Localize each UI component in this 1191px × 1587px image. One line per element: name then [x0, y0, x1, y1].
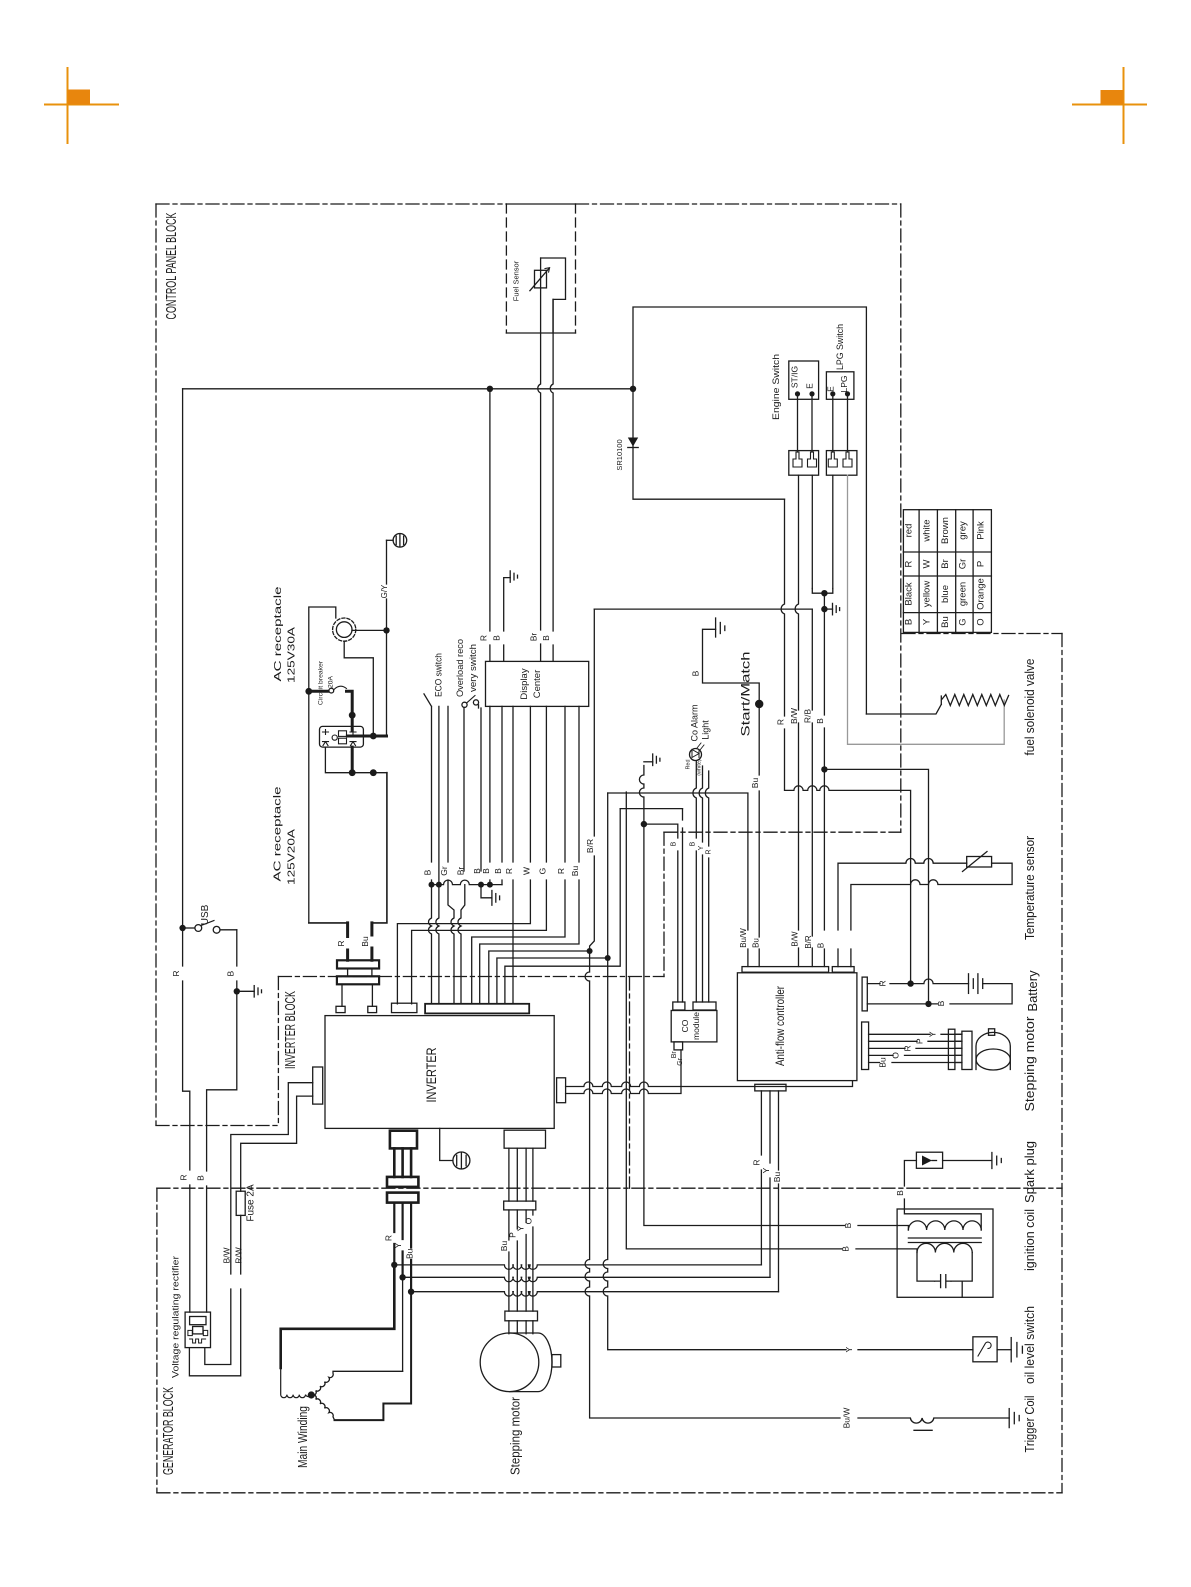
ignition coil capacitor [935, 1275, 951, 1288]
wire R display [512, 706, 514, 1003]
svg-text:USB: USB [200, 904, 211, 925]
ignition coil box [897, 1209, 993, 1297]
wire G display [412, 706, 547, 1003]
svg-text:Br: Br [671, 1051, 678, 1059]
node 20A thick junction [370, 733, 377, 740]
fuel solenoid valve coil [941, 695, 1008, 706]
svg-text:Circuit breaker: Circuit breaker [318, 660, 325, 705]
wire R/B lower [811, 609, 813, 966]
wire Bu leg thick [370, 923, 373, 960]
CO module top pad right [693, 1002, 716, 1010]
svg-text:Trigger Coil: Trigger Coil [1022, 1395, 1037, 1452]
inverter pad 1 [336, 1006, 345, 1012]
svg-text:B: B [225, 970, 235, 976]
ground circle at inverter [453, 1152, 470, 1169]
fuel sensor arrow [530, 268, 549, 291]
svg-text:Bu/W: Bu/W [842, 1408, 852, 1429]
svg-text:Y: Y [761, 1167, 771, 1173]
wire H2 corridor [620, 808, 682, 810]
svg-text:Pink: Pink [975, 521, 986, 540]
inverter right tab [557, 1078, 566, 1103]
ground at spark plug [992, 1153, 1001, 1169]
wire Gr [448, 706, 454, 1003]
wire 30A bottom to breaker box [344, 641, 373, 736]
wire Br [458, 885, 465, 1004]
svg-text:B: B [904, 619, 915, 625]
ECO switch [424, 694, 439, 885]
CO module bottom pad [674, 1042, 683, 1050]
wire B/R corner [590, 609, 595, 951]
svg-text:W: W [521, 867, 531, 875]
registration mark top-right [1073, 68, 1146, 143]
node row B5 [487, 882, 493, 888]
wire spark plug to ground [943, 1160, 992, 1162]
node B ground tap [821, 606, 827, 612]
ground at trigger coil [1009, 1409, 1019, 1428]
B/W R/W labels [221, 1247, 243, 1264]
engine switch compartment box [633, 307, 866, 714]
svg-text:Y: Y [393, 1242, 403, 1248]
node G/Y receptacle [383, 627, 389, 633]
wire color code table [903, 510, 991, 633]
svg-text:Main Winding: Main Winding [295, 1406, 310, 1468]
svg-text:Gr: Gr [677, 1057, 684, 1065]
svg-text:LPG Switch: LPG Switch [835, 324, 846, 370]
stepping motor wires right [869, 1034, 962, 1062]
CO module label [680, 1012, 701, 1040]
wire H2 left leg to bar pin9 [505, 809, 620, 1004]
wire engine switch pin1 to connector [797, 396, 799, 452]
svg-text:Bu: Bu [751, 938, 760, 948]
svg-text:Y: Y [928, 1031, 938, 1037]
AC receptacle 125V30A outer [333, 618, 356, 641]
INVERTER box [325, 1016, 554, 1129]
svg-text:B: B [481, 868, 491, 874]
overload recovery switch [462, 696, 481, 872]
svg-text:R: R [776, 719, 786, 725]
engine switch contacts [795, 391, 800, 396]
node box top right [370, 769, 377, 776]
node row B1 [429, 882, 435, 888]
svg-text:Bu: Bu [570, 866, 580, 877]
wire 30A right terminal to G/Y node [352, 629, 387, 631]
wire bar to inverter pad 2 [371, 984, 373, 1006]
svg-text:O: O [891, 1052, 901, 1059]
svg-text:R: R [171, 971, 181, 977]
receptacle output box [309, 773, 387, 923]
AC receptacle 30A enclosure [309, 607, 336, 923]
svg-text:LPG: LPG [839, 375, 849, 392]
R Y Bu labels inverter bottom [384, 1235, 415, 1259]
svg-text:Bu: Bu [750, 778, 760, 789]
svg-text:Br: Br [940, 559, 951, 569]
svg-text:E: E [826, 386, 836, 392]
svg-text:Bu: Bu [878, 1057, 888, 1068]
wire ignition B2 corridor [626, 792, 897, 1249]
fuse 2A body [236, 1191, 245, 1215]
svg-text:Battery: Battery [1025, 970, 1040, 1012]
svg-text:P: P [975, 561, 986, 567]
stepping motor right body [976, 1029, 1010, 1070]
overload switch label [455, 639, 479, 697]
svg-text:Y: Y [516, 1225, 526, 1231]
CO wire labels [670, 841, 712, 1065]
stepping motor wire labels [878, 1031, 938, 1068]
svg-text:W: W [922, 559, 933, 568]
svg-text:B: B [195, 1175, 205, 1181]
svg-text:B/R: B/R [585, 839, 595, 853]
fuel sensor outline [541, 258, 566, 333]
GFCI pins [323, 730, 357, 746]
svg-text:Y: Y [698, 845, 705, 850]
inverter block dashed boundary step vertical [663, 832, 665, 976]
svg-text:B: B [815, 718, 825, 724]
anti-flow controller box [737, 973, 857, 1081]
svg-text:Gr: Gr [958, 559, 969, 570]
generator block dashed bottom [157, 1492, 1062, 1494]
svg-text:R: R [336, 940, 346, 946]
node breaker feed [305, 688, 312, 695]
wire B2 display [489, 706, 491, 884]
node Y branch [399, 1274, 405, 1280]
svg-text:very switch: very switch [468, 644, 479, 692]
wire thick GFCI to G/Y [347, 735, 386, 738]
svg-text:B: B [895, 1190, 905, 1196]
svg-text:B: B [843, 1222, 853, 1228]
svg-text:INVERTER BLOCK: INVERTER BLOCK [283, 991, 299, 1069]
ignition coil core [908, 1238, 981, 1243]
connector bar link stubs [348, 969, 372, 977]
fuel sensor resistor body [535, 270, 547, 288]
svg-text:B: B [816, 943, 825, 948]
battery wire labels [878, 980, 947, 1006]
wire engine box to fuel solenoid [866, 704, 941, 714]
connector pin terminals [793, 452, 817, 467]
ignition coil primary [908, 1221, 981, 1230]
svg-text:R: R [384, 1235, 394, 1241]
svg-text:G: G [537, 868, 547, 875]
svg-text:Center: Center [532, 670, 543, 699]
svg-text:R: R [904, 560, 915, 567]
leg labels [336, 936, 370, 947]
wire LPG pin1 to connector [832, 396, 834, 452]
junction row wire [432, 880, 503, 885]
svg-text:Start/Match: Start/Match [739, 652, 753, 737]
wire bar pin10 stub [512, 1003, 514, 1005]
svg-text:Bu: Bu [940, 616, 951, 628]
ignition B labels [841, 1222, 854, 1251]
svg-text:blue: blue [940, 585, 951, 603]
wire elbow to bar pin7 [489, 951, 590, 1004]
control panel block dashed frame left [155, 204, 157, 1126]
svg-text:Bu: Bu [499, 1241, 509, 1252]
svg-text:CO: CO [680, 1019, 690, 1032]
Co Alarm light LED [690, 743, 705, 761]
CO module box [671, 1011, 717, 1042]
svg-text:Engine Switch: Engine Switch [771, 354, 782, 420]
svg-text:grey: grey [958, 521, 969, 540]
stepping motor bottom comb [505, 1311, 538, 1321]
inverter block dashed boundary left [277, 977, 279, 1126]
svg-text:Bu: Bu [772, 1172, 782, 1183]
inverter bottom bar2 [387, 1193, 418, 1203]
svg-text:P: P [508, 1232, 518, 1238]
inverter long connector bar [425, 1004, 529, 1014]
svg-text:Anti-flow controller: Anti-flow controller [773, 986, 787, 1066]
control panel block dashed frame right [900, 204, 902, 832]
wire Y branch to anti-flow [403, 1277, 770, 1281]
anti-flow top small bar [832, 967, 854, 973]
svg-text:R: R [178, 1174, 188, 1180]
svg-text:B: B [492, 635, 502, 641]
wires anti-flow bottom [761, 1091, 778, 1292]
wire temp sensor upper [838, 859, 967, 967]
diode SR10100 [628, 438, 638, 448]
wire Y to winding upper arm [402, 1277, 404, 1371]
svg-text:B: B [841, 1246, 851, 1252]
ignition coil wiring [897, 1209, 981, 1297]
wire R/B connector down [811, 475, 813, 588]
control panel block dashed frame top [156, 203, 901, 205]
svg-text:O: O [524, 1217, 534, 1224]
wire battery R [867, 979, 968, 984]
main bus wire [183, 388, 633, 390]
svg-text:ST/IG: ST/IG [790, 366, 800, 388]
svg-text:B: B [691, 670, 701, 676]
svg-text:R: R [556, 868, 566, 874]
node H1 pin8 [605, 955, 611, 961]
node USB B ground [234, 988, 240, 994]
wire Bu/W label gap on B/W wire [776, 708, 826, 725]
inverter block dashed boundary step horizontal [664, 831, 901, 833]
anti-flow top connector bar [742, 967, 829, 973]
ground at USB B wire [237, 986, 262, 997]
svg-text:ECO switch: ECO switch [434, 653, 445, 697]
node box top left [349, 769, 356, 776]
svg-text:B/W: B/W [790, 931, 799, 947]
svg-text:green: green [958, 582, 969, 606]
svg-text:B/R: B/R [804, 935, 813, 949]
wire fuel sensor B to display [550, 299, 553, 661]
wire temp sensor right loop [851, 863, 1012, 966]
wire H2 right leg to CO pad [682, 809, 684, 1002]
svg-text:Brown: Brown [940, 517, 951, 544]
svg-text:Temperature sensor: Temperature sensor [1022, 835, 1037, 940]
AC receptacle labels [272, 586, 298, 885]
LPG switch box [826, 372, 854, 400]
ignition coil secondary [917, 1243, 972, 1252]
node USB tap [179, 925, 185, 931]
stepping motor bottom wire labels [499, 1217, 534, 1251]
svg-text:AC receptacle: AC receptacle [272, 786, 284, 881]
inverter-engine dashed separator vertical [629, 977, 631, 1188]
node R branch [391, 1262, 397, 1268]
wire E connector down [832, 475, 834, 588]
AC receptacle 125V30A inner [336, 622, 352, 638]
engine switch connector [789, 451, 819, 476]
svg-text:white: white [922, 519, 933, 542]
anti-flow battery tab [862, 977, 867, 1011]
wire G/Y vertical [386, 540, 388, 736]
wire ignition B1 corridor [639, 766, 897, 1226]
registration mark top-left [45, 68, 118, 143]
svg-text:Br: Br [529, 633, 539, 642]
svg-text:Spark plug: Spark plug [1022, 1141, 1037, 1203]
wire R branch to anti-flow [394, 1265, 761, 1269]
stepping motor bottom body [480, 1333, 561, 1392]
wire fuel sensor Br to display [538, 258, 541, 661]
wire bar to inverter pad 1 [341, 984, 343, 1006]
ground at display B [510, 571, 517, 582]
inverter small connector bar [392, 1003, 417, 1012]
svg-text:125V20A: 125V20A [286, 829, 298, 885]
battery symbol [969, 974, 983, 994]
wire inverter tab to R/W fuse [189, 1096, 312, 1376]
thick wires inverter bottom [394, 1148, 411, 1177]
generator block dashed left [156, 1188, 158, 1493]
svg-text:Fuel Sensor: Fuel Sensor [512, 260, 521, 301]
wire oil label to switch [858, 1349, 973, 1351]
wire display B top to ground [504, 578, 511, 662]
svg-text:B/W: B/W [221, 1247, 231, 1263]
svg-text:B/W: B/W [789, 708, 799, 724]
svg-text:yellow: yellow [922, 581, 933, 608]
svg-text:INVERTER: INVERTER [424, 1047, 439, 1102]
node row B4 [478, 882, 484, 888]
svg-text:Display: Display [519, 668, 530, 699]
block labels [161, 212, 299, 1475]
Start-Match lamp [755, 700, 763, 708]
wire R from box corner down [781, 499, 910, 983]
CO module wires top right [693, 761, 709, 1002]
wire tab upper right [566, 1081, 853, 1087]
svg-text:(white): (white) [697, 759, 703, 776]
engine switch box [789, 361, 819, 399]
wire breaker into GFCI [351, 715, 354, 730]
svg-text:oil level switch: oil level switch [1022, 1306, 1037, 1384]
wire R leg thick [346, 923, 349, 960]
trigger coil core [914, 1429, 932, 1431]
svg-text:G: G [958, 618, 969, 625]
wire B from USB down [207, 930, 237, 1312]
svg-text:Red: Red [686, 759, 692, 769]
engine block dashed right [1061, 634, 1063, 1493]
wire Bu display elbow [480, 706, 579, 1003]
wire display R top [489, 392, 491, 661]
svg-text:red: red [904, 524, 915, 538]
node B branch to battery line [821, 766, 827, 772]
oil level switch box [973, 1337, 997, 1362]
svg-text:module: module [691, 1012, 701, 1040]
wire bus left end down (R main) [182, 389, 184, 928]
main winding upper arm [311, 1371, 402, 1395]
svg-text:Y: Y [922, 618, 933, 625]
inverter left tab [313, 1067, 323, 1104]
wire battery to B [867, 984, 1012, 1004]
node bus-display R [487, 386, 493, 392]
wire engine switch pin2 to connector [811, 396, 813, 452]
Co Alarm light labels [686, 704, 711, 775]
svg-text:O: O [975, 618, 986, 625]
svg-text:Orange: Orange [975, 578, 986, 610]
trigger coil wire and coil [858, 1418, 1009, 1423]
svg-text:B: B [690, 841, 697, 846]
wire oil switch to ground [997, 1349, 1011, 1351]
GFCI receptacle 20A box [320, 726, 364, 747]
wire B1 [429, 885, 432, 1004]
wire labels R B left column [171, 970, 235, 1180]
wire tab lower to CO [566, 1050, 681, 1094]
inverter bottom thick connector [390, 1131, 417, 1149]
svg-text:B: B [670, 841, 677, 846]
svg-text:Bu: Bu [405, 1248, 415, 1259]
wire labels display bottom [422, 839, 595, 876]
svg-text:R: R [751, 1159, 761, 1165]
CO module top pad left [673, 1002, 685, 1010]
wire switch line to merge [594, 608, 812, 610]
svg-text:G/Y: G/Y [380, 584, 389, 598]
wire B/W connector to anti-flow [795, 475, 798, 966]
inverter AC connector bar upper [337, 960, 379, 968]
svg-text:E: E [805, 383, 815, 389]
svg-text:R: R [478, 635, 488, 641]
node winding center [308, 1391, 315, 1398]
circuit breaker labels [318, 660, 335, 705]
node bus-engine box [630, 386, 636, 392]
wire GFCI bottom left pin down [325, 747, 387, 773]
anti-flow bottom labels [751, 1159, 782, 1182]
svg-text:125V30A: 125V30A [286, 627, 298, 683]
anti-flow bottom connector [755, 1084, 786, 1091]
stepping motor comb stubs [509, 1321, 533, 1334]
svg-text:Voltage regulating rectifier: Voltage regulating rectifier [171, 1256, 182, 1378]
svg-text:CONTROL PANEL BLOCK: CONTROL PANEL BLOCK [164, 212, 180, 319]
svg-text:Stepping motor: Stepping motor [508, 1396, 523, 1475]
B wire to ground top [703, 629, 760, 700]
node B/R junction [587, 948, 593, 954]
inverter block dashed boundary top [278, 976, 664, 978]
svg-text:ignition coil: ignition coil [1022, 1209, 1037, 1271]
anti-flow stepping tab [862, 1022, 869, 1070]
wire W display [397, 706, 530, 1003]
svg-text:Light: Light [701, 720, 711, 740]
thick wires below bars [394, 1203, 411, 1292]
wire elbow to bar pin8 [497, 958, 608, 1004]
inverter block dashed boundary bottom-left [156, 1125, 278, 1127]
wire H1 oil corridor [608, 793, 748, 967]
wire LPG grey to fuel solenoid [848, 475, 1005, 744]
svg-text:Black: Black [904, 582, 915, 605]
wire Bu thick to winding lower arm [335, 1292, 412, 1420]
wire spark plug feed [904, 1161, 916, 1210]
inverter bottom bar1 [387, 1177, 418, 1187]
svg-text:Overload reco: Overload reco [455, 639, 466, 697]
LPG switch contacts [830, 391, 835, 396]
svg-text:Co Alarm: Co Alarm [690, 704, 700, 741]
svg-text:Bu/W: Bu/W [739, 928, 748, 948]
wire R main lower [183, 928, 190, 1312]
svg-text:B: B [541, 635, 551, 641]
inverter ground tap [440, 1128, 453, 1160]
svg-text:R/W: R/W [234, 1247, 244, 1264]
svg-text:R: R [504, 868, 514, 874]
wire B branch to battery B [824, 769, 928, 1004]
wire B3 display [501, 706, 503, 884]
wire oil corridor down [603, 793, 846, 1350]
wire Bu lamp to anti-flow [758, 708, 760, 967]
node battery R [907, 980, 913, 986]
spark plug body [916, 1152, 942, 1168]
